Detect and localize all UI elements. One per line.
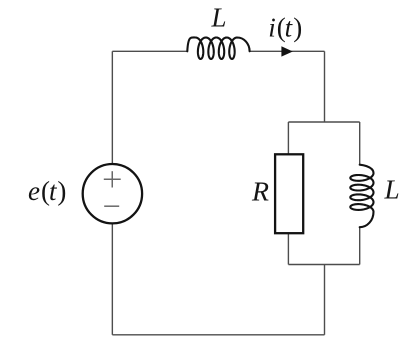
wire: bottom horizontal	[112, 334, 324, 336]
svg-text:R: R	[251, 176, 270, 206]
svg-text:e: e	[28, 176, 40, 206]
wire: top-left horizontal (corner to inductor L1)	[112, 50, 187, 52]
svg-text:L: L	[383, 175, 399, 205]
voltage source e(t) circle	[83, 164, 142, 223]
svg-text:L: L	[211, 3, 227, 33]
svg-text:): )	[57, 176, 66, 206]
inductor L1 (top, horizontal cute coil)	[187, 37, 249, 59]
voltage source plus sign	[104, 171, 121, 187]
label e(t)	[28, 176, 66, 206]
wire: top-right horizontal (inductor L1 to top-right corner)	[249, 50, 324, 52]
wire: resistor branch top lead	[287, 122, 289, 154]
voltage source minus sign	[104, 205, 119, 207]
wire: inductor L2 branch top lead	[359, 122, 361, 165]
inductor L2 (right branch, vertical cute coil)	[350, 165, 373, 228]
current arrow head for i(t)	[281, 46, 292, 56]
svg-text:i: i	[268, 13, 276, 43]
wire: left vertical lower (source bottom to bottom-left corner)	[111, 223, 113, 334]
wire: resistor branch bottom lead	[287, 233, 289, 264]
resistor R body	[275, 154, 303, 233]
wire: parallel bottom bar	[288, 264, 359, 266]
wire: right vertical upper (top-right corner to parallel top node)	[324, 51, 326, 122]
wire: right vertical lower (parallel bottom node to bottom-right corner)	[324, 265, 326, 335]
wire: inductor L2 branch bottom lead	[359, 227, 361, 264]
wire: parallel top bar	[288, 121, 359, 123]
svg-text:): )	[293, 13, 302, 43]
wire: left vertical upper (corner to source top)	[111, 51, 113, 164]
label i(t)	[268, 13, 302, 43]
